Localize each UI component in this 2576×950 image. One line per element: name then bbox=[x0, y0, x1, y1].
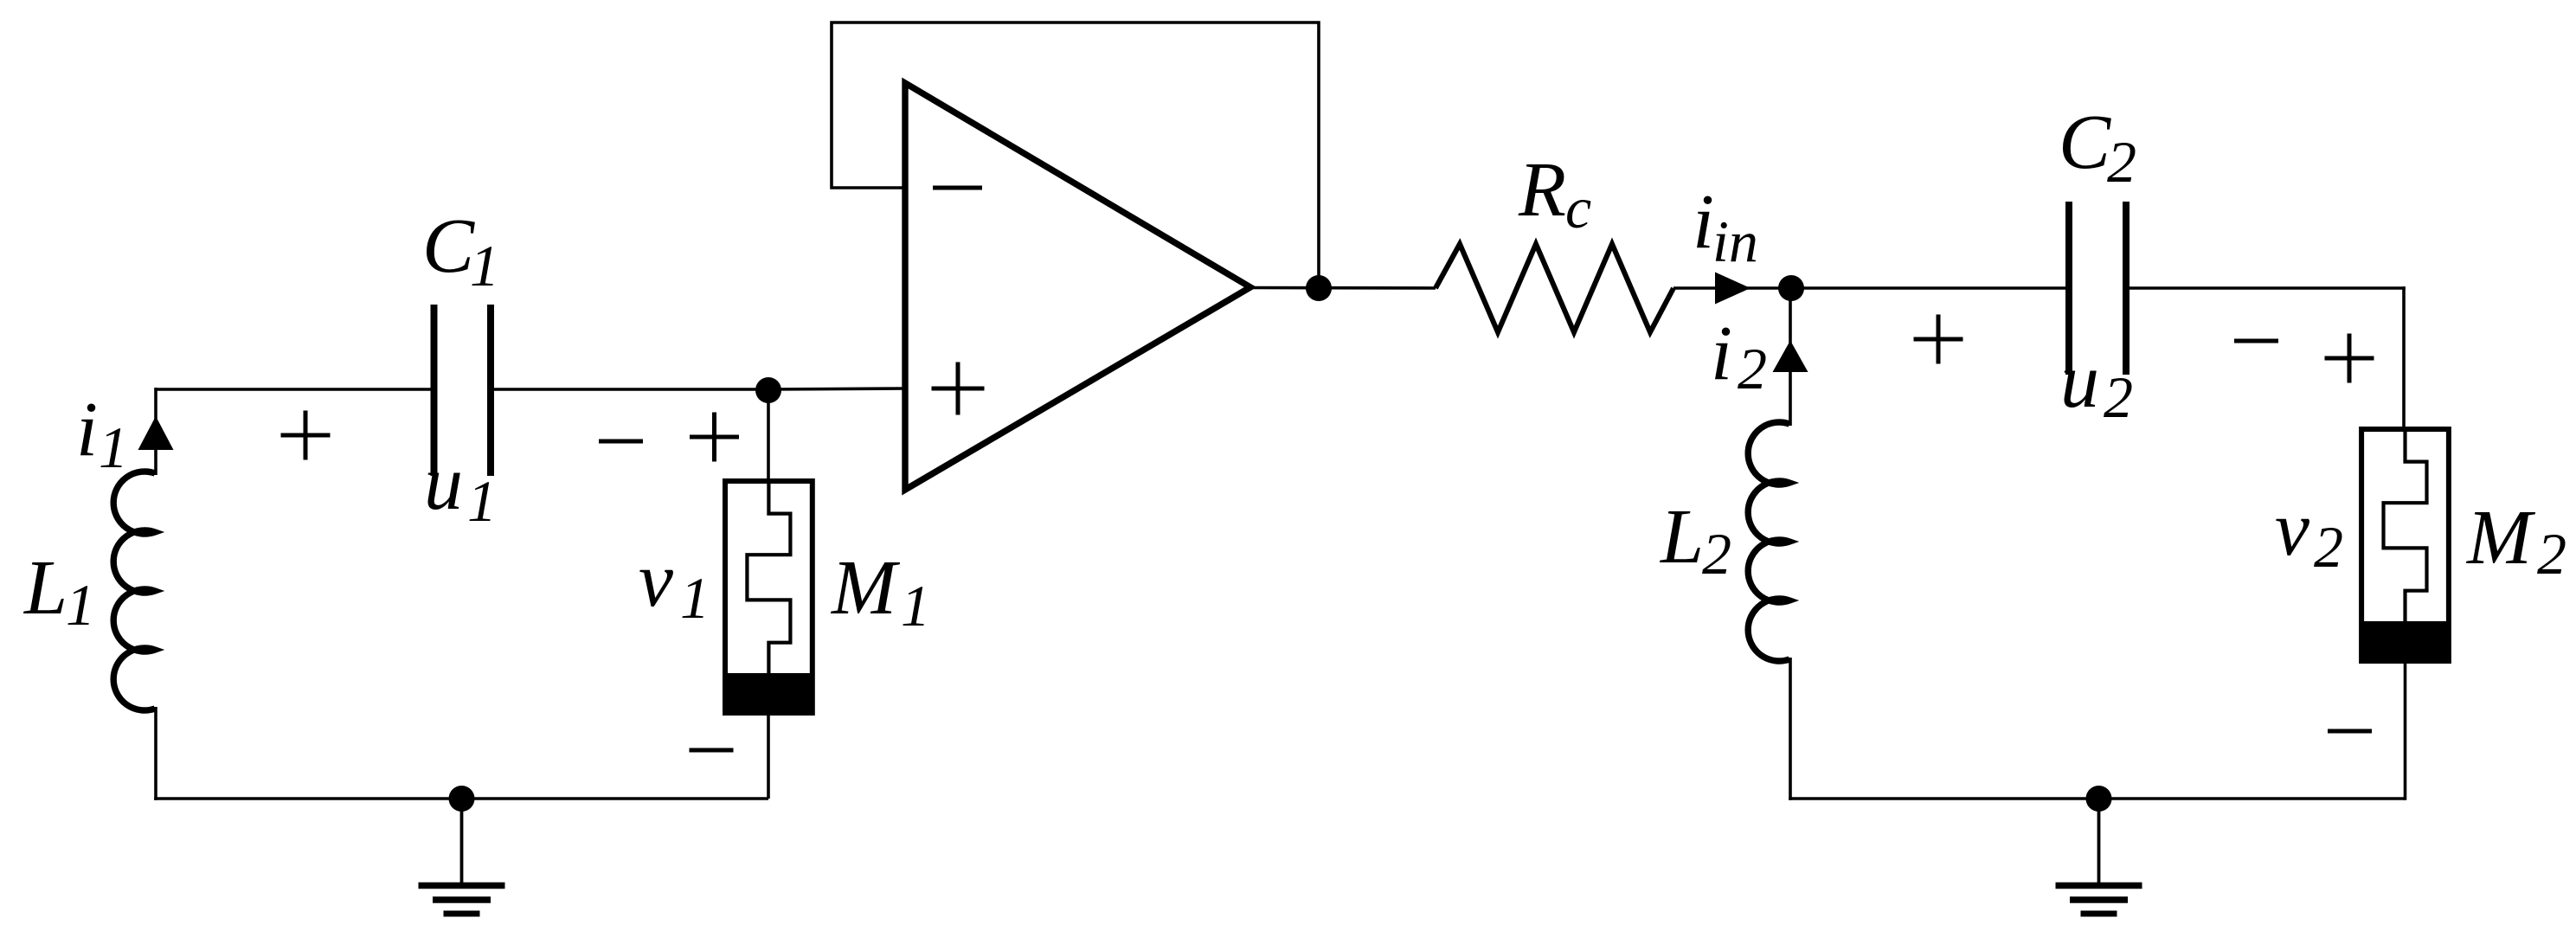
label v1 bbox=[639, 537, 710, 631]
wire left vertical bottom segment bbox=[154, 707, 157, 800]
node at left ground junction bbox=[449, 786, 475, 812]
svg-text:L: L bbox=[22, 545, 67, 631]
polarity minus v2 minus bbox=[2328, 729, 2372, 734]
label i1 bbox=[76, 387, 128, 480]
svg-text:2: 2 bbox=[1702, 521, 1731, 587]
svg-text:i: i bbox=[76, 387, 98, 472]
svg-text:C: C bbox=[422, 203, 475, 289]
svg-text:M: M bbox=[2465, 495, 2536, 581]
label Rc bbox=[1518, 147, 1591, 241]
wire right circuit left vertical bbox=[1789, 288, 1792, 426]
svg-text:1: 1 bbox=[99, 414, 128, 480]
svg-text:1: 1 bbox=[467, 468, 497, 534]
svg-text:C: C bbox=[2059, 99, 2111, 185]
wire memristor M1 to bottom bbox=[767, 713, 770, 799]
polarity plus u1 plus bbox=[281, 411, 331, 460]
svg-text:M: M bbox=[830, 545, 901, 631]
wire op-amp output bbox=[1250, 286, 1436, 290]
polarity plus u2 plus bbox=[1914, 315, 1963, 364]
current arrow i1 bbox=[138, 416, 174, 450]
label v2 bbox=[2275, 486, 2343, 580]
label M2 bbox=[2465, 495, 2566, 587]
capacitor C1 bbox=[434, 305, 491, 476]
svg-text:i: i bbox=[1711, 311, 1732, 396]
inductor L2 bbox=[1748, 422, 1789, 661]
wire top-left horizontal (left of C1) bbox=[156, 388, 432, 391]
polarity plus v1 plus bbox=[690, 413, 739, 462]
svg-text:1: 1 bbox=[680, 565, 710, 631]
svg-text:u: u bbox=[424, 440, 463, 526]
op-amp inverting input minus bbox=[933, 186, 982, 190]
label i_in bbox=[1693, 179, 1758, 274]
inductor L1 bbox=[113, 472, 155, 710]
svg-text:2: 2 bbox=[2537, 521, 2566, 587]
label C2 bbox=[2059, 99, 2136, 195]
capacitor C2 bbox=[2069, 202, 2126, 375]
wire top-right horizontal (left of C2) bbox=[1791, 286, 2066, 290]
wire bottom-left horizontal bbox=[154, 797, 768, 800]
label i2 bbox=[1711, 311, 1767, 401]
polarity plus v2 plus bbox=[2325, 334, 2374, 383]
feedback wire (output to inverting input) bbox=[832, 22, 1319, 288]
wire memristor M2 to bottom bbox=[2404, 661, 2407, 800]
label L1 bbox=[22, 545, 95, 638]
wire right circuit left vertical bottom bbox=[1789, 658, 1792, 800]
label u2 bbox=[2060, 338, 2133, 430]
svg-text:v: v bbox=[639, 537, 673, 623]
svg-text:in: in bbox=[1712, 209, 1758, 274]
svg-text:2: 2 bbox=[2104, 364, 2133, 430]
svg-text:2: 2 bbox=[2107, 129, 2136, 195]
polarity plus op-amp noninverting input bbox=[932, 363, 985, 415]
svg-text:v: v bbox=[2275, 486, 2309, 572]
label C1 bbox=[422, 203, 499, 298]
wire top-left horizontal (right of C1) bbox=[492, 388, 768, 391]
current arrow i_in bbox=[1715, 273, 1751, 305]
resistor Rc bbox=[1436, 244, 1673, 332]
polarity minus u2 minus bbox=[2234, 339, 2278, 343]
wire bottom-right horizontal bbox=[1789, 797, 2405, 800]
wire left vertical top segment bbox=[154, 388, 157, 475]
node at right ground junction bbox=[2086, 786, 2112, 812]
wire node to op-amp noninverting input bbox=[768, 388, 905, 389]
wire right vertical to memristor M2 bbox=[2402, 286, 2406, 429]
svg-text:L: L bbox=[1659, 494, 1704, 580]
wire resistor to node bbox=[1673, 286, 1791, 290]
svg-text:1: 1 bbox=[470, 233, 499, 298]
node at i_in/L2 junction bbox=[1778, 275, 1804, 301]
memristor M2 bbox=[2361, 429, 2449, 661]
svg-text:u: u bbox=[2060, 338, 2099, 424]
svg-text:1: 1 bbox=[66, 572, 95, 638]
ground right bbox=[2056, 799, 2142, 914]
op-amp U1 triangle bbox=[905, 83, 1250, 490]
wire top-right horizontal (right of C2) bbox=[2128, 286, 2406, 290]
polarity minus v1 minus bbox=[690, 748, 734, 753]
current arrow i2 bbox=[1773, 341, 1808, 373]
label M1 bbox=[830, 545, 930, 639]
node at C1/M1/op-amp junction bbox=[755, 377, 781, 403]
svg-text:i: i bbox=[1693, 179, 1714, 265]
memristor M1 bbox=[725, 481, 813, 713]
label u1 bbox=[424, 440, 497, 534]
svg-text:2: 2 bbox=[2314, 514, 2343, 580]
ground left bbox=[419, 799, 505, 914]
polarity minus u1 minus bbox=[599, 440, 643, 444]
svg-text:R: R bbox=[1518, 147, 1566, 233]
label L2 bbox=[1659, 494, 1731, 587]
node at op-amp output bbox=[1306, 275, 1332, 301]
svg-text:c: c bbox=[1565, 175, 1591, 241]
svg-text:1: 1 bbox=[901, 573, 930, 639]
svg-text:2: 2 bbox=[1738, 336, 1767, 401]
wire node to memristor M1 bbox=[767, 390, 770, 481]
